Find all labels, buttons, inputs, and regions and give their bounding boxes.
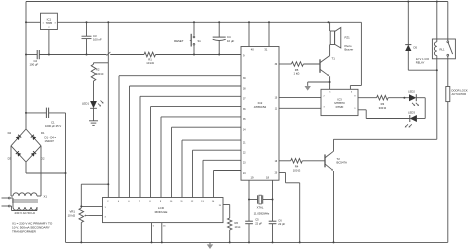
svg-text:12 V 1 C/O: 12 V 1 C/O <box>416 57 429 61</box>
svg-text:330 Ω: 330 Ω <box>379 106 387 110</box>
svg-text:RL1: RL1 <box>440 47 445 51</box>
svg-text:10 kΩ: 10 kΩ <box>68 214 75 218</box>
svg-text:ACTUATOR: ACTUATOR <box>452 92 467 96</box>
svg-text:LED2: LED2 <box>408 90 415 94</box>
svg-text:R6: R6 <box>235 221 239 225</box>
svg-text:D1: D1 <box>41 131 45 135</box>
svg-text:MODULE: MODULE <box>155 210 168 214</box>
svg-text:10 Ω: 10 Ω <box>235 225 241 229</box>
svg-text:7805: 7805 <box>46 21 53 25</box>
svg-text:31: 31 <box>264 48 267 52</box>
svg-text:22 pF: 22 pF <box>278 222 285 226</box>
svg-text:1N4007: 1N4007 <box>45 139 55 143</box>
svg-text:19: 19 <box>251 175 254 179</box>
svg-text:100 µF: 100 µF <box>30 62 39 66</box>
svg-text:10 µF: 10 µF <box>227 39 234 43</box>
svg-text:220 Ω: 220 Ω <box>96 72 104 76</box>
svg-text:1 kΩ: 1 kΩ <box>294 72 300 76</box>
svg-text:230 V AC 50 Hz: 230 V AC 50 Hz <box>15 211 36 215</box>
svg-text:Buzzer: Buzzer <box>345 48 354 52</box>
svg-text:C6: C6 <box>278 218 282 222</box>
svg-text:1000 µF 25 V: 1000 µF 25 V <box>45 124 61 128</box>
svg-text:100 Ω: 100 Ω <box>293 168 301 172</box>
svg-text:AT89C52: AT89C52 <box>254 105 267 109</box>
svg-text:DTMF: DTMF <box>336 105 344 109</box>
svg-text:LED3: LED3 <box>408 111 415 115</box>
svg-text:D4: D4 <box>8 131 12 135</box>
svg-text:S1: S1 <box>198 39 202 43</box>
svg-text:40: 40 <box>251 48 254 52</box>
svg-text:DOOR LOCK: DOOR LOCK <box>452 88 468 92</box>
svg-text:RESET: RESET <box>174 39 184 43</box>
svg-text:LED1: LED1 <box>82 102 89 106</box>
svg-text:X1: X1 <box>44 194 48 198</box>
svg-text:10 kΩ: 10 kΩ <box>146 61 153 65</box>
svg-text:22 pF: 22 pF <box>255 221 262 225</box>
svg-text:11.0592MHz: 11.0592MHz <box>254 212 270 216</box>
svg-text:D1 - D4 =: D1 - D4 = <box>45 136 57 140</box>
svg-text:C5: C5 <box>255 218 259 222</box>
svg-text:18: 18 <box>266 175 269 179</box>
svg-text:BC547A: BC547A <box>337 161 348 165</box>
svg-text:D5: D5 <box>414 46 418 50</box>
svg-text:100 nF: 100 nF <box>93 38 102 42</box>
svg-text:D2: D2 <box>41 157 45 161</box>
svg-text:PZ1: PZ1 <box>345 36 351 40</box>
svg-text:T1: T1 <box>332 57 336 61</box>
svg-text:C1: C1 <box>51 121 55 125</box>
svg-text:TRANSFORMER: TRANSFORMER <box>12 229 37 233</box>
svg-text:XTAL: XTAL <box>257 205 264 209</box>
svg-text:RELAY: RELAY <box>416 60 425 64</box>
